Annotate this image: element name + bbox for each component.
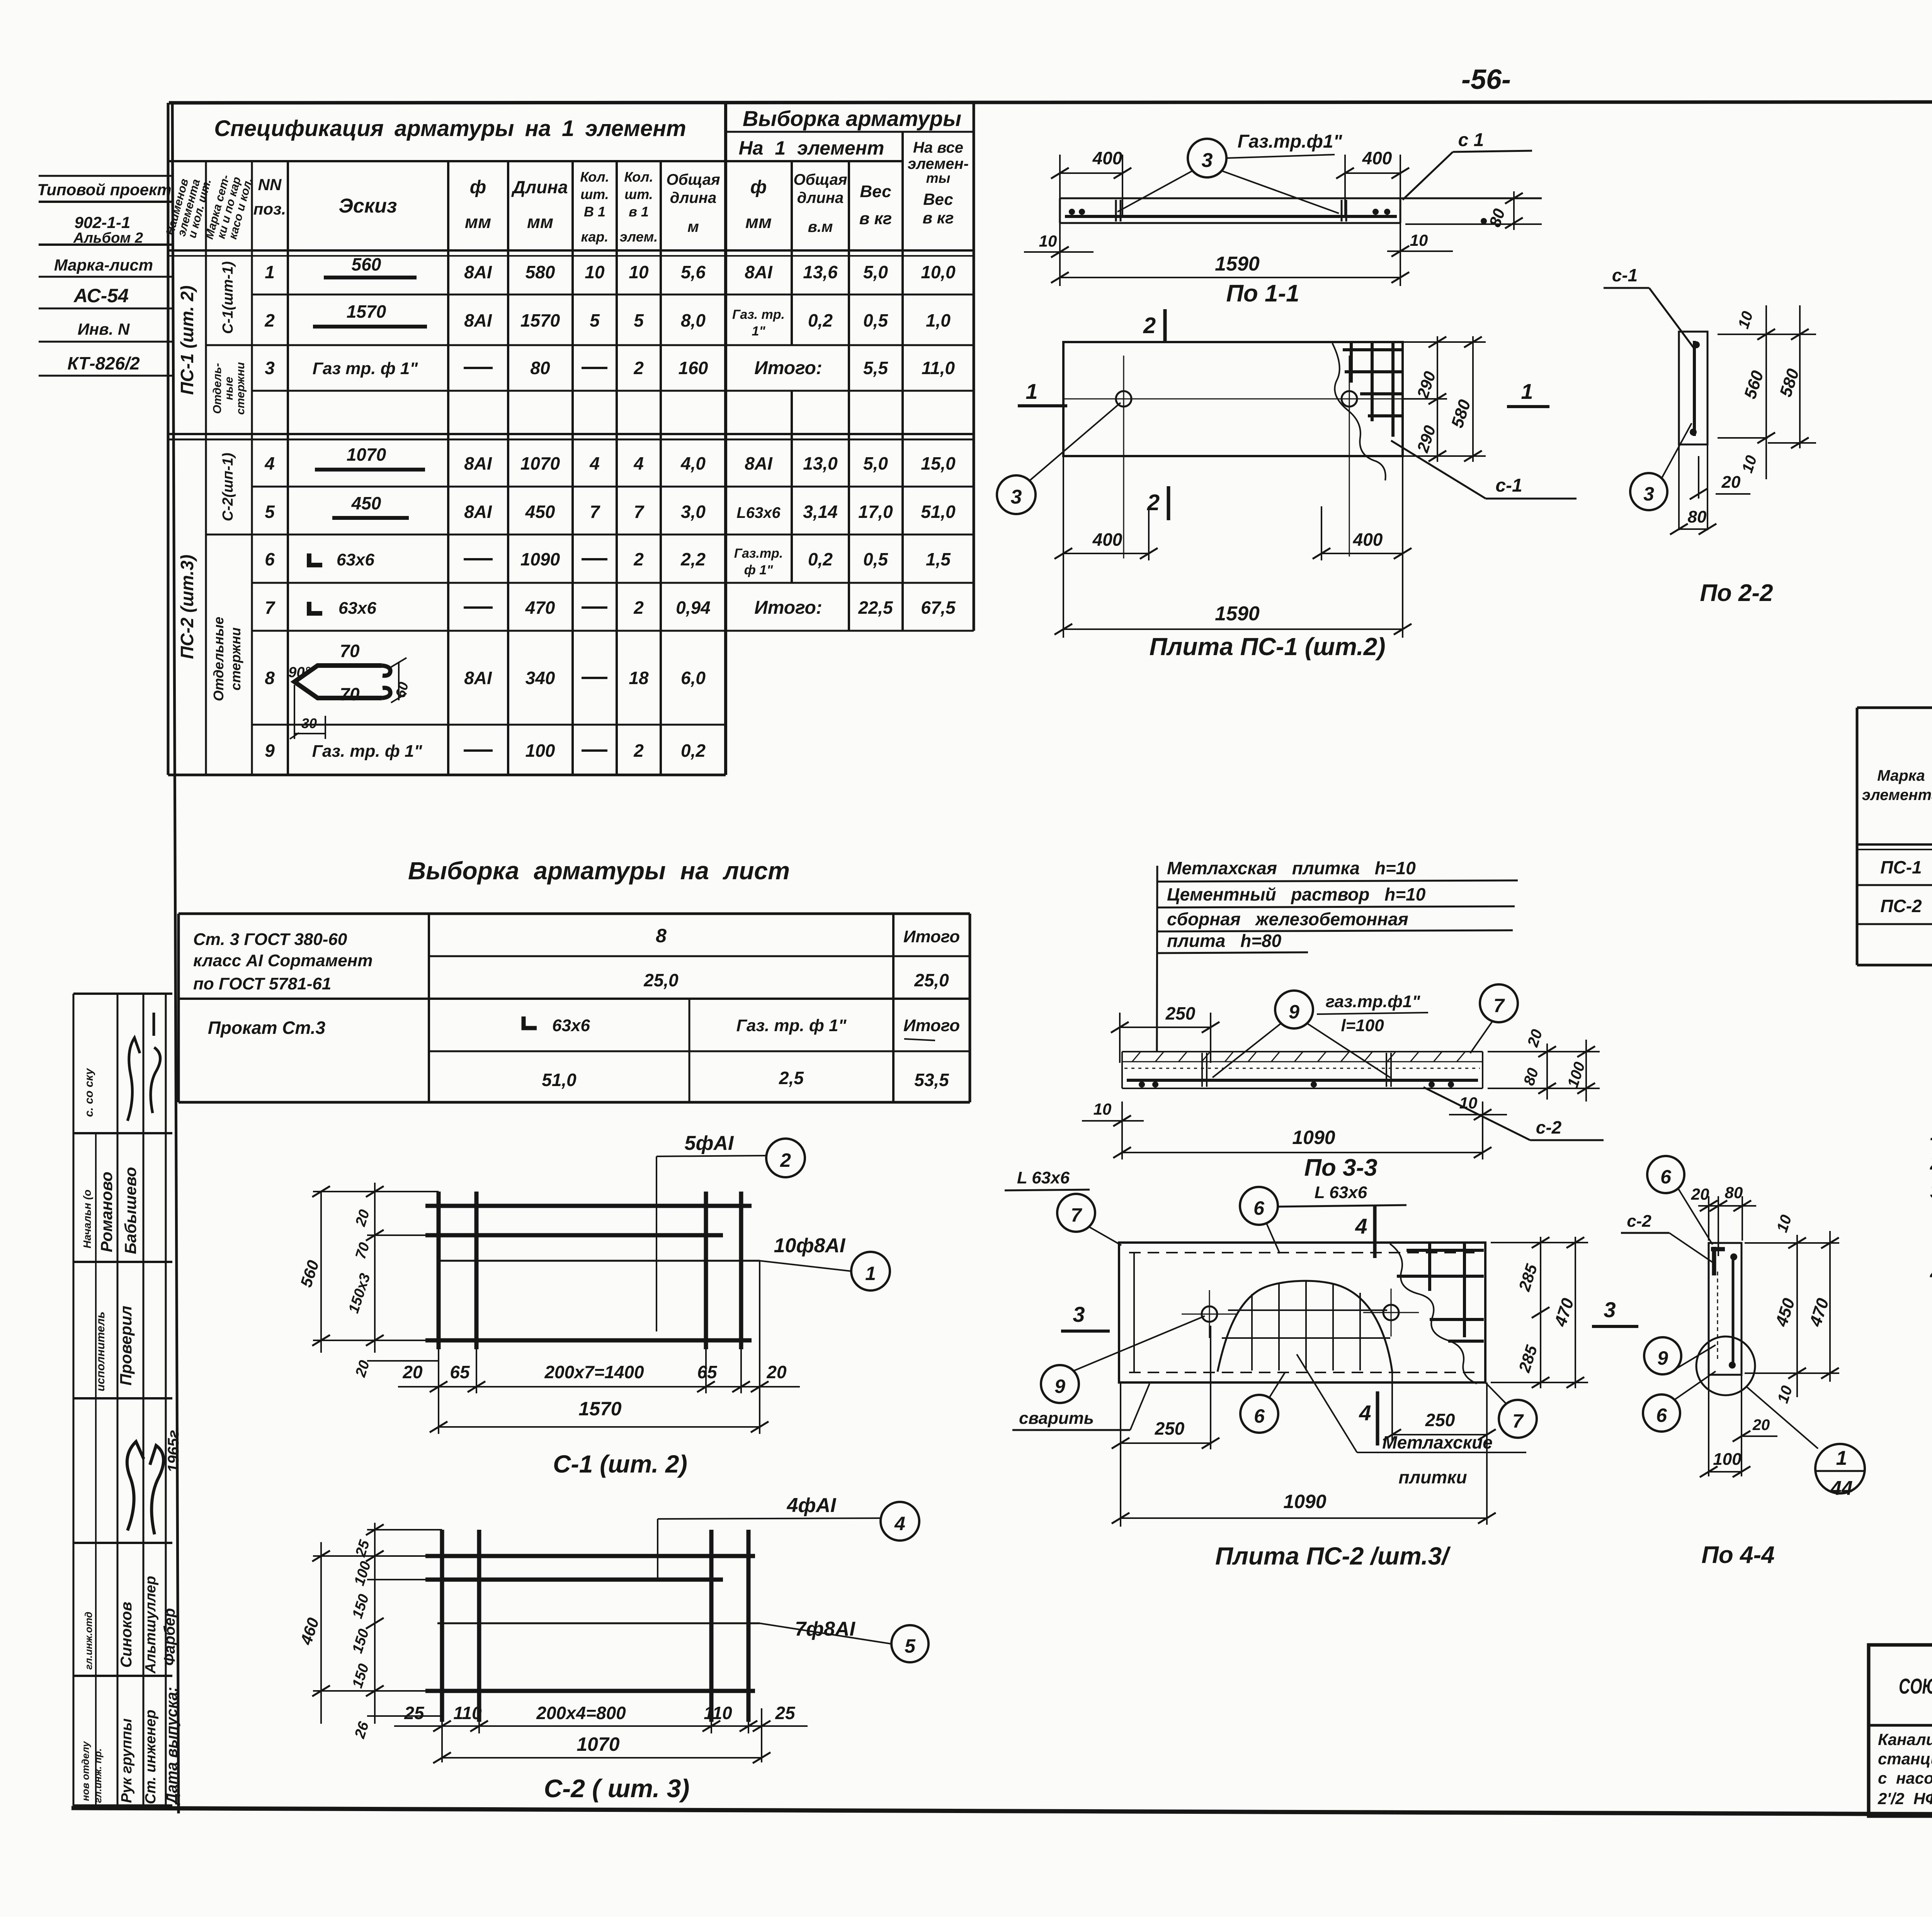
svg-text:8: 8 bbox=[265, 668, 275, 688]
svg-text:Отдельные: Отдельные bbox=[211, 617, 226, 701]
svg-text:с-2: с-2 bbox=[1536, 1117, 1562, 1137]
callout circle 3 bbox=[997, 475, 1036, 514]
svg-text:400: 400 bbox=[1092, 529, 1122, 550]
svg-text:2: 2 bbox=[633, 358, 644, 378]
mesh bars bbox=[425, 1204, 752, 1208]
svg-text:мм: мм bbox=[527, 212, 553, 232]
callout circle 3 with leaders bbox=[1188, 139, 1226, 177]
svg-text:2,5: 2,5 bbox=[779, 1068, 804, 1088]
tiles label with leader bbox=[1297, 1354, 1357, 1452]
section Po 2-2 bbox=[1604, 265, 1816, 606]
beam cross-section bbox=[1060, 197, 1542, 199]
svg-text:длина: длина bbox=[797, 189, 844, 206]
svg-text:20: 20 bbox=[1691, 1185, 1709, 1203]
callout 7 top-left bbox=[1057, 1194, 1095, 1232]
row 5: bar 450 bbox=[265, 493, 956, 522]
callout circle 9 bbox=[1275, 991, 1313, 1028]
svg-text:4: 4 bbox=[589, 453, 600, 473]
svg-text:Бабышево: Бабышево bbox=[121, 1167, 139, 1254]
notes (Primechaniya) bbox=[1930, 1076, 1932, 1285]
svg-text:6: 6 bbox=[1253, 1197, 1265, 1219]
svg-text:1965г.: 1965г. bbox=[165, 1426, 182, 1473]
svg-text:18: 18 bbox=[629, 668, 649, 688]
svg-text:450: 450 bbox=[351, 493, 381, 513]
callout 6 bottom bbox=[1643, 1394, 1680, 1432]
row 8: bent bar sketch bbox=[265, 641, 706, 739]
svg-text:сборная железобетонная: сборная железобетонная bbox=[1167, 909, 1408, 929]
svg-text:5: 5 bbox=[905, 1635, 916, 1657]
plate rectangle bbox=[1119, 1243, 1485, 1382]
svg-text:10: 10 bbox=[1039, 232, 1057, 250]
svg-text:Канализационная насосная: Канализационная насосная bbox=[1878, 1730, 1932, 1748]
callout 7 bottom right bbox=[1499, 1400, 1537, 1438]
svg-text:Альтшуллер: Альтшуллер bbox=[143, 1576, 159, 1674]
svg-text:4фАI: 4фАI bbox=[787, 1494, 837, 1517]
svg-text:нов отделу: нов отделу bbox=[80, 1741, 91, 1801]
row 9: gas pipe 100 bbox=[265, 741, 706, 761]
svg-text:1: 1 bbox=[1026, 379, 1037, 403]
svg-text:2,2: 2,2 bbox=[680, 549, 706, 569]
svg-text:стержни: стержни bbox=[228, 627, 243, 690]
right dims 285/285/470 bbox=[1491, 1242, 1588, 1243]
svg-text:1090: 1090 bbox=[1292, 1127, 1335, 1148]
svg-text:ПС-1: ПС-1 bbox=[1880, 857, 1922, 877]
svg-text:10: 10 bbox=[1774, 1384, 1796, 1405]
svg-text:20: 20 bbox=[402, 1362, 423, 1382]
svg-text:6: 6 bbox=[265, 549, 275, 569]
svg-text:470: 470 bbox=[1551, 1296, 1578, 1329]
svg-text:1570: 1570 bbox=[347, 301, 386, 322]
svg-text:Плита ПС-1 (шт.2): Плита ПС-1 (шт.2) bbox=[1149, 633, 1385, 661]
svg-text:3: 3 bbox=[1604, 1297, 1616, 1322]
svg-text:80: 80 bbox=[1520, 1066, 1542, 1088]
section Po 1-1 bbox=[1024, 130, 1542, 307]
svg-text:450: 450 bbox=[1772, 1296, 1799, 1329]
svg-text:Эскиз: Эскиз bbox=[339, 195, 397, 217]
svg-text:1,0: 1,0 bbox=[926, 310, 951, 330]
mesh fragment top-right corner bbox=[1332, 343, 1386, 480]
svg-text:30: 30 bbox=[301, 715, 317, 731]
svg-text:3.: 3. bbox=[1930, 1180, 1932, 1203]
sheet page number -56- bbox=[1461, 64, 1511, 95]
svg-text:8: 8 bbox=[656, 925, 667, 947]
svg-text:кар.: кар. bbox=[581, 229, 609, 245]
svg-text:7: 7 bbox=[1512, 1410, 1524, 1432]
svg-text:560: 560 bbox=[1741, 368, 1767, 401]
svg-text:2.: 2. bbox=[1930, 1152, 1932, 1174]
svg-text:С-2(шп-1): С-2(шп-1) bbox=[220, 453, 236, 521]
svg-text:8АI: 8АI bbox=[464, 262, 492, 282]
beam body bbox=[1122, 1051, 1483, 1052]
svg-text:стержни: стержни bbox=[234, 362, 247, 415]
svg-text:25,0: 25,0 bbox=[914, 970, 949, 990]
svg-text:1.: 1. bbox=[1930, 1122, 1932, 1145]
right 80/100 dims bbox=[1488, 1051, 1600, 1052]
svg-text:0,5: 0,5 bbox=[863, 549, 888, 569]
right dims 290/290/580 bbox=[1403, 341, 1486, 343]
svg-text:7: 7 bbox=[590, 502, 600, 522]
svg-text:9: 9 bbox=[1289, 1001, 1299, 1023]
svg-text:4: 4 bbox=[894, 1513, 905, 1534]
svg-text:Отдель-: Отдель- bbox=[211, 363, 224, 414]
svg-text:По 1-1: По 1-1 bbox=[1226, 280, 1299, 307]
svg-text:Кол.: Кол. bbox=[624, 169, 653, 185]
torn corner with mesh bbox=[1390, 1244, 1477, 1384]
svg-text:Дата выпуска:: Дата выпуска: bbox=[163, 1687, 180, 1805]
svg-text:20: 20 bbox=[1721, 473, 1741, 492]
svg-text:в кг: в кг bbox=[923, 209, 954, 227]
svg-text:8АI: 8АI bbox=[745, 262, 773, 282]
svg-text:ф 1": ф 1" bbox=[744, 563, 773, 577]
svg-text:По 4-4: По 4-4 bbox=[1701, 1542, 1774, 1568]
right dims 450/470 bbox=[1796, 1235, 1798, 1397]
svg-text:80: 80 bbox=[1688, 507, 1707, 526]
callout circle 3 bbox=[1630, 473, 1667, 510]
svg-text:5,0: 5,0 bbox=[863, 453, 888, 473]
svg-text:ПС-2: ПС-2 bbox=[1880, 896, 1922, 916]
svg-text:3,14: 3,14 bbox=[803, 502, 838, 522]
svg-text:Цементный раствор h=10: Цементный раствор h=10 bbox=[1167, 884, 1426, 904]
svg-text:3: 3 bbox=[265, 358, 275, 378]
svg-text:Итого:: Итого: bbox=[754, 598, 822, 618]
svg-text:3,0: 3,0 bbox=[681, 502, 706, 522]
svg-text:65: 65 bbox=[450, 1362, 470, 1382]
svg-text:мм: мм bbox=[465, 212, 491, 232]
svg-text:L 63x6: L 63x6 bbox=[1315, 1183, 1367, 1202]
svg-text:станция на 2 агрегата: станция на 2 агрегата bbox=[1878, 1750, 1932, 1768]
svg-text:Общая: Общая bbox=[793, 171, 847, 188]
svg-text:1: 1 bbox=[265, 262, 275, 282]
svg-text:1070: 1070 bbox=[577, 1733, 619, 1755]
svg-text:l=100: l=100 bbox=[1341, 1016, 1384, 1035]
svg-text:150x3: 150x3 bbox=[345, 1272, 374, 1315]
svg-text:26: 26 bbox=[352, 1720, 372, 1741]
armature selection per sheet table bbox=[179, 857, 970, 1102]
svg-text:АС-54: АС-54 bbox=[73, 285, 129, 306]
svg-text:25: 25 bbox=[775, 1703, 796, 1723]
svg-text:10: 10 bbox=[1094, 1100, 1112, 1118]
svg-text:5фАI: 5фАI bbox=[685, 1132, 734, 1154]
svg-text:С-1(шт-1): С-1(шт-1) bbox=[220, 261, 236, 334]
svg-text:1": 1" bbox=[752, 324, 765, 339]
svg-text:63x6: 63x6 bbox=[337, 550, 374, 569]
svg-text:Газ.тр.ф1": Газ.тр.ф1" bbox=[1238, 131, 1343, 152]
svg-text:20: 20 bbox=[352, 1208, 373, 1229]
svg-text:с-1: с-1 bbox=[1495, 475, 1522, 496]
svg-text:С-1 (шт. 2): С-1 (шт. 2) bbox=[553, 1450, 687, 1478]
svg-text:Кол.: Кол. bbox=[580, 169, 609, 185]
callout 6 bottom bbox=[1240, 1395, 1278, 1433]
svg-text:Плита ПС-2 /шт.3/: Плита ПС-2 /шт.3/ bbox=[1215, 1542, 1451, 1570]
svg-text:10: 10 bbox=[1774, 1213, 1795, 1234]
svg-text:Вес: Вес bbox=[923, 190, 953, 208]
svg-text:6,0: 6,0 bbox=[681, 668, 706, 688]
svg-text:исполнитель: исполнитель bbox=[94, 1311, 107, 1391]
svg-text:25: 25 bbox=[404, 1703, 425, 1723]
svg-text:100: 100 bbox=[1713, 1450, 1742, 1469]
svg-text:10,0: 10,0 bbox=[921, 262, 956, 282]
svg-text:20: 20 bbox=[766, 1362, 787, 1382]
svg-text:2: 2 bbox=[633, 741, 644, 761]
svg-text:200x7=1400: 200x7=1400 bbox=[544, 1362, 644, 1382]
svg-text:класс АI Сортамент: класс АI Сортамент bbox=[193, 951, 372, 970]
plate PS-1 plan bbox=[997, 309, 1577, 661]
svg-text:70: 70 bbox=[340, 684, 360, 704]
svg-text:8АI: 8АI bbox=[745, 453, 773, 473]
svg-text:70: 70 bbox=[340, 641, 360, 661]
svg-text:8,0: 8,0 bbox=[681, 310, 706, 330]
svg-text:4: 4 bbox=[264, 453, 275, 473]
svg-text:9: 9 bbox=[1657, 1347, 1668, 1369]
svg-text:На все: На все bbox=[913, 139, 963, 156]
svg-text:шт.: шт. bbox=[624, 186, 653, 202]
svg-text:в кг: в кг bbox=[859, 209, 892, 228]
svg-text:Альбом 2: Альбом 2 bbox=[73, 230, 143, 246]
svg-text:560: 560 bbox=[352, 254, 381, 274]
svg-text:20: 20 bbox=[1752, 1416, 1770, 1433]
svg-text:с 1: с 1 bbox=[1458, 130, 1484, 150]
svg-text:с насосами марки: с насосами марки bbox=[1878, 1769, 1932, 1787]
svg-text:ПС-1 (шт. 2): ПС-1 (шт. 2) bbox=[177, 286, 197, 395]
svg-text:150: 150 bbox=[349, 1627, 372, 1655]
svg-text:290: 290 bbox=[1413, 369, 1439, 401]
svg-text:25,0: 25,0 bbox=[643, 970, 679, 990]
row 7: angle L63x6 470 bbox=[265, 598, 956, 618]
svg-text:Метлахская плитка h=10: Метлахская плитка h=10 bbox=[1167, 858, 1416, 878]
svg-text:На 1 элемент: На 1 элемент bbox=[739, 137, 884, 159]
left dims bbox=[320, 1192, 322, 1353]
svg-text:газ.тр.ф1": газ.тр.ф1" bbox=[1326, 992, 1421, 1011]
svg-text:ПС-2 (шт.3): ПС-2 (шт.3) bbox=[177, 555, 197, 659]
svg-text:Фарбер: Фарбер bbox=[161, 1608, 178, 1666]
svg-text:Ст. 3 ГОСТ 380-60: Ст. 3 ГОСТ 380-60 bbox=[193, 930, 347, 949]
svg-text:63x6: 63x6 bbox=[552, 1016, 590, 1035]
svg-text:1590: 1590 bbox=[1215, 253, 1260, 275]
svg-text:0,2: 0,2 bbox=[681, 741, 706, 761]
svg-text:Прокат Ст.3: Прокат Ст.3 bbox=[208, 1018, 326, 1038]
svg-text:1: 1 bbox=[865, 1263, 876, 1284]
svg-text:1090: 1090 bbox=[520, 549, 560, 569]
svg-text:5: 5 bbox=[634, 310, 644, 330]
svg-text:290: 290 bbox=[1413, 423, 1439, 455]
svg-text:Выборка арматуры на лист: Выборка арматуры на лист bbox=[408, 857, 790, 885]
svg-text:Марка-лист: Марка-лист bbox=[54, 256, 153, 274]
svg-text:6: 6 bbox=[1660, 1166, 1672, 1188]
svg-text:53,5: 53,5 bbox=[914, 1070, 949, 1090]
svg-text:0,2: 0,2 bbox=[808, 549, 833, 569]
svg-text:150: 150 bbox=[349, 1592, 372, 1621]
svg-text:ты: ты bbox=[926, 170, 951, 186]
svg-text:51,0: 51,0 bbox=[921, 502, 956, 522]
plate strip section bbox=[1709, 1243, 1742, 1375]
svg-text:9: 9 bbox=[1054, 1376, 1065, 1397]
svg-text:10: 10 bbox=[629, 262, 649, 282]
svg-text:8АI: 8АI bbox=[464, 668, 492, 688]
svg-text:Спецификация арматуры на 1 эл: Спецификация арматуры на 1 элемент bbox=[214, 116, 686, 141]
svg-text:5,0: 5,0 bbox=[863, 262, 888, 282]
svg-text:L63x6: L63x6 bbox=[736, 504, 781, 521]
svg-text:Итого: Итого bbox=[903, 1016, 960, 1035]
leader to fraction circle 1/44 bbox=[1747, 1387, 1818, 1449]
row 4: bar 1070 bbox=[264, 444, 956, 473]
svg-text:С-2 ( шт. 3): С-2 ( шт. 3) bbox=[544, 1774, 690, 1803]
svg-text:элемента: элемента bbox=[1862, 787, 1932, 804]
svg-text:2: 2 bbox=[264, 310, 275, 330]
svg-text:250: 250 bbox=[1425, 1410, 1455, 1430]
svg-text:0,5: 0,5 bbox=[863, 310, 888, 330]
svg-text:Длина: Длина bbox=[511, 177, 568, 197]
svg-text:250: 250 bbox=[1165, 1003, 1196, 1023]
svg-text:67,5: 67,5 bbox=[921, 598, 956, 618]
svg-text:Метлахские: Метлахские bbox=[1382, 1432, 1492, 1452]
svg-text:2: 2 bbox=[1143, 313, 1156, 338]
svg-text:10: 10 bbox=[585, 262, 605, 282]
svg-text:10: 10 bbox=[1739, 453, 1760, 475]
svg-text:1,5: 1,5 bbox=[926, 549, 951, 569]
svg-text:1070: 1070 bbox=[520, 453, 560, 473]
svg-text:Выборка арматуры: Выборка арматуры bbox=[743, 106, 961, 131]
row 1: bar 560 bbox=[265, 254, 956, 282]
svg-text:0,2: 0,2 bbox=[808, 310, 833, 330]
svg-text:шт.: шт. bbox=[580, 186, 609, 202]
svg-text:ные: ные bbox=[223, 377, 235, 400]
svg-text:2: 2 bbox=[633, 598, 644, 618]
svg-text:470: 470 bbox=[1806, 1296, 1833, 1329]
svg-text:250: 250 bbox=[1155, 1418, 1185, 1439]
svg-text:2: 2 bbox=[780, 1149, 791, 1171]
svg-text:Проверил: Проверил bbox=[117, 1306, 135, 1386]
svg-text:10: 10 bbox=[1735, 309, 1757, 331]
callout 9 with weld note bbox=[1041, 1365, 1079, 1403]
svg-text:100: 100 bbox=[351, 1559, 374, 1588]
svg-text:10ф8АI: 10ф8АI bbox=[774, 1234, 846, 1257]
svg-text:80: 80 bbox=[1486, 206, 1509, 229]
svg-text:Начальн (о: Начальн (о bbox=[81, 1190, 93, 1248]
svg-text:Романово: Романово bbox=[97, 1171, 116, 1252]
svg-text:6: 6 bbox=[1656, 1405, 1667, 1426]
svg-text:плита h=80: плита h=80 bbox=[1167, 931, 1282, 951]
svg-text:Газ. тр. ф 1": Газ. тр. ф 1" bbox=[736, 1016, 847, 1035]
svg-text:L 63x6: L 63x6 bbox=[1017, 1168, 1070, 1187]
svg-text:Газ тр. ф 1": Газ тр. ф 1" bbox=[313, 359, 418, 378]
mesh C-2 bbox=[297, 1494, 929, 1803]
svg-text:8АI: 8АI bbox=[464, 453, 492, 473]
svg-text:Ст. инженер: Ст. инженер bbox=[143, 1710, 159, 1804]
svg-text:63x6: 63x6 bbox=[338, 599, 376, 618]
svg-text:110: 110 bbox=[704, 1703, 732, 1723]
svg-text:51,0: 51,0 bbox=[542, 1070, 577, 1090]
svg-text:1590: 1590 bbox=[1215, 603, 1260, 625]
svg-text:13,6: 13,6 bbox=[803, 262, 838, 282]
svg-text:Общая: Общая bbox=[666, 171, 720, 188]
svg-text:ф: ф bbox=[470, 177, 486, 197]
svg-text:17,0: 17,0 bbox=[858, 502, 893, 522]
svg-text:902-1-1: 902-1-1 bbox=[75, 213, 131, 232]
svg-text:с-2: с-2 bbox=[1627, 1212, 1651, 1231]
svg-text:65: 65 bbox=[697, 1362, 718, 1382]
svg-text:400: 400 bbox=[1092, 148, 1122, 168]
svg-text:110: 110 bbox=[453, 1703, 482, 1723]
svg-text:13,0: 13,0 bbox=[803, 453, 838, 473]
svg-text:м: м bbox=[687, 218, 699, 235]
callout circle 7 bbox=[1480, 984, 1518, 1022]
svg-text:поз.: поз. bbox=[253, 200, 286, 218]
specification table grid bbox=[168, 103, 974, 775]
row 3: gas pipe bbox=[265, 358, 955, 378]
svg-text:-56-: -56- bbox=[1461, 64, 1511, 95]
svg-text:NN: NN bbox=[258, 175, 282, 194]
svg-text:сварить: сварить bbox=[1019, 1409, 1094, 1428]
svg-text:3: 3 bbox=[1011, 486, 1022, 508]
svg-text:80: 80 bbox=[1725, 1183, 1743, 1202]
svg-text:3: 3 bbox=[1643, 483, 1654, 505]
svg-text:560: 560 bbox=[297, 1258, 322, 1289]
hole right bbox=[1342, 391, 1357, 407]
section Po 3-3 with layer annotations bbox=[1082, 858, 1604, 1181]
left dims bbox=[320, 1542, 322, 1724]
svg-text:Рук группы: Рук группы bbox=[119, 1718, 135, 1803]
svg-text:44: 44 bbox=[1830, 1477, 1853, 1500]
svg-text:Газ. тр. ф 1": Газ. тр. ф 1" bbox=[312, 742, 423, 761]
svg-text:2'/2 НФ или 4НФ: 2'/2 НФ или 4НФ bbox=[1878, 1789, 1932, 1808]
callout 6 top bbox=[1647, 1156, 1684, 1193]
svg-text:5,6: 5,6 bbox=[681, 262, 706, 282]
title block bbox=[1869, 1645, 1932, 1845]
svg-text:СОЮЗВОДОКАНАЛПРОЕКТ: СОЮЗВОДОКАНАЛПРОЕКТ bbox=[1899, 1675, 1932, 1699]
top-left inventory stamp rows bbox=[37, 176, 172, 376]
svg-text:3: 3 bbox=[1073, 1302, 1085, 1326]
svg-text:4: 4 bbox=[1355, 1214, 1367, 1238]
section Po 4-4 bbox=[1621, 1156, 1865, 1568]
svg-text:100: 100 bbox=[1564, 1060, 1588, 1090]
svg-text:285: 285 bbox=[1515, 1343, 1541, 1375]
svg-text:Итого:: Итого: bbox=[754, 358, 822, 378]
svg-text:580: 580 bbox=[1448, 397, 1475, 430]
svg-text:гл.инж.отд: гл.инж.отд bbox=[83, 1612, 94, 1670]
svg-text:По 2-2: По 2-2 bbox=[1700, 580, 1773, 606]
svg-text:8АI: 8АI bbox=[464, 310, 492, 330]
svg-text:1: 1 bbox=[1836, 1447, 1847, 1469]
callout 6 top bbox=[1240, 1187, 1278, 1225]
svg-text:8АI: 8АI bbox=[464, 502, 492, 522]
svg-text:1070: 1070 bbox=[347, 444, 386, 465]
svg-text:7: 7 bbox=[1071, 1204, 1082, 1226]
svg-text:80: 80 bbox=[530, 358, 550, 378]
svg-text:150: 150 bbox=[349, 1662, 372, 1690]
svg-text:7: 7 bbox=[634, 502, 645, 522]
svg-text:340: 340 bbox=[526, 668, 555, 688]
svg-text:9: 9 bbox=[265, 741, 275, 761]
specification table headers bbox=[163, 106, 969, 245]
svg-text:Инв. N: Инв. N bbox=[78, 320, 130, 338]
svg-text:4.: 4. bbox=[1930, 1262, 1932, 1285]
svg-text:с. со ску: с. со ску bbox=[83, 1068, 95, 1117]
svg-text:5: 5 bbox=[265, 502, 275, 522]
callout 9 bbox=[1644, 1337, 1681, 1374]
svg-text:285: 285 bbox=[1515, 1262, 1541, 1294]
left rotated group labels bbox=[177, 261, 247, 701]
svg-text:7: 7 bbox=[1493, 995, 1505, 1016]
svg-text:470: 470 bbox=[525, 598, 555, 618]
svg-text:4: 4 bbox=[1359, 1401, 1371, 1425]
svg-text:1570: 1570 bbox=[520, 310, 560, 330]
svg-text:1570: 1570 bbox=[578, 1398, 621, 1420]
svg-text:Синоков: Синоков bbox=[118, 1602, 135, 1668]
svg-text:7: 7 bbox=[265, 598, 276, 618]
svg-text:400: 400 bbox=[1362, 148, 1392, 168]
svg-text:мм: мм bbox=[745, 212, 772, 232]
svg-text:20: 20 bbox=[1524, 1027, 1546, 1049]
